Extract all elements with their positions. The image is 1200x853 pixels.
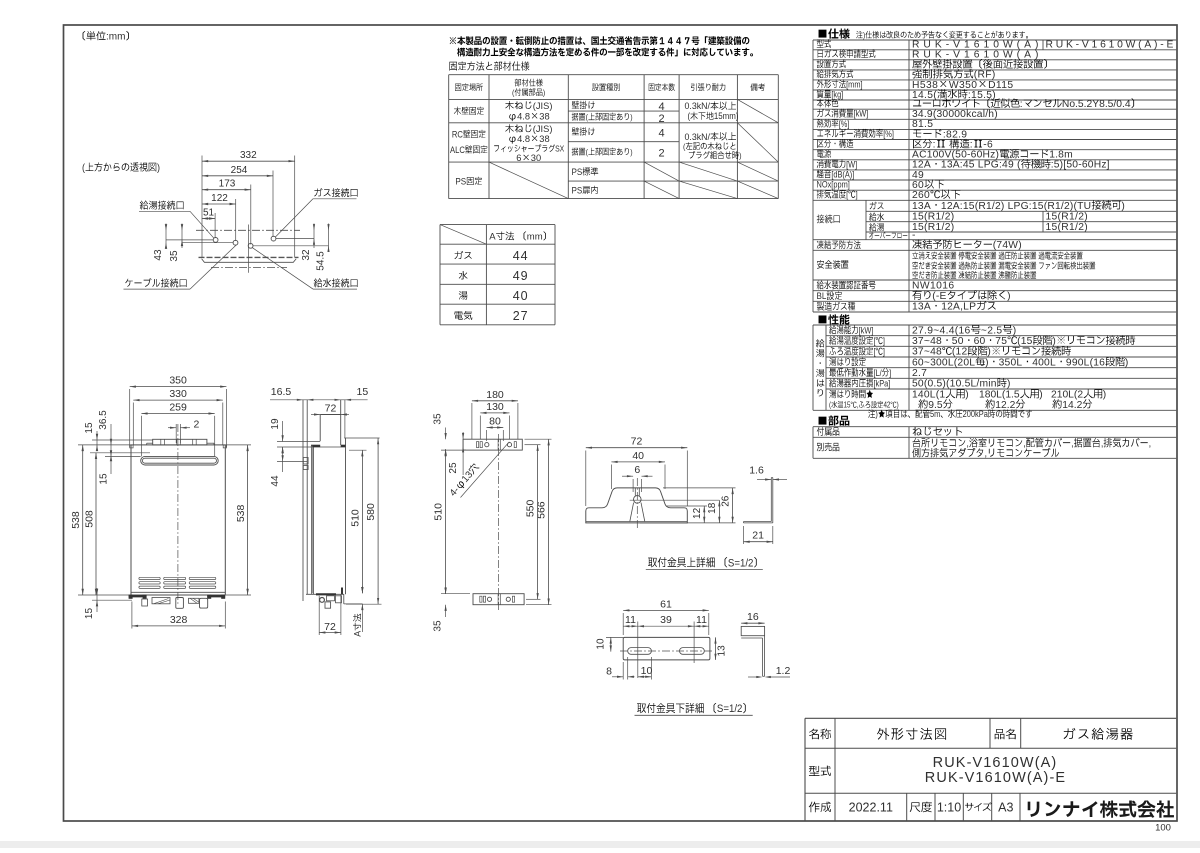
svg-text:200kPa: 200kPa [963, 408, 988, 419]
front dim 259 [141, 413, 214, 415]
svg-text:122: 122 [211, 193, 228, 204]
svg-text:): ) [1121, 201, 1125, 212]
top view label [82, 162, 160, 174]
svg-text:,: , [1023, 438, 1026, 450]
svg-text:[kPa]: [kPa] [873, 378, 890, 389]
svg-text:-: - [912, 230, 916, 241]
svg-text:): ) [157, 162, 160, 174]
svg-text:538: 538 [70, 511, 82, 529]
svg-text:[%]: [%] [839, 118, 850, 129]
svg-text:61: 61 [660, 598, 672, 610]
left reference lines [166, 239, 213, 241]
svg-text:): ) [630, 147, 633, 157]
rear 4-phi13 label [461, 442, 510, 498]
svg-text:(: ( [512, 88, 515, 98]
svg-text:260: 260 [912, 190, 930, 201]
svg-text:): ) [1052, 336, 1056, 347]
top view body bottom edge [199, 256, 299, 258]
svg-text:14.2: 14.2 [1062, 400, 1082, 411]
svg-text:37~48: 37~48 [912, 347, 942, 358]
rear dim 566 [525, 438, 552, 440]
fixing table diagonals [737, 99, 778, 122]
parts heading [819, 416, 850, 426]
title block row1 [809, 729, 831, 740]
svg-text:18: 18 [707, 502, 718, 514]
svg-text:350L: 350L [999, 357, 1023, 368]
upper bracket dim 40 [610, 465, 612, 490]
svg-text:39: 39 [660, 614, 672, 626]
svg-text:,: , [1101, 438, 1104, 450]
spec table heading [819, 28, 850, 38]
fixing table heading [449, 61, 529, 70]
svg-text:40: 40 [513, 289, 529, 303]
top view dim 51 [202, 218, 215, 220]
svg-text:,: , [1071, 438, 1074, 450]
svg-text:12.2: 12.2 [995, 400, 1015, 411]
spec table labels [817, 39, 831, 48]
lower bracket dim 8 [622, 662, 624, 680]
side bottom fittings [320, 598, 325, 603]
svg-text:25: 25 [448, 462, 459, 474]
svg-text:35: 35 [169, 250, 180, 262]
front louvres [139, 577, 160, 579]
front dim 350 [130, 386, 227, 388]
svg-text:580: 580 [365, 503, 377, 521]
upper bracket outline [586, 488, 688, 523]
svg-text:S=1/2: S=1/2 [717, 704, 743, 716]
svg-text:): ) [739, 151, 742, 161]
side exhaust duct [319, 415, 321, 442]
svg-text:13A:45 LPG:49 (: 13A:45 LPG:49 ( [941, 160, 1021, 171]
company name [1028, 801, 1174, 818]
svg-text:44: 44 [270, 475, 281, 487]
svg-text:15: 15 [84, 422, 95, 434]
svg-text:SX: SX [555, 144, 565, 154]
svg-text:No.5.2Y8.5/0.4: No.5.2Y8.5/0.4 [1062, 99, 1131, 110]
side dim A [361, 586, 363, 593]
svg-text:PS: PS [572, 166, 583, 177]
svg-text:15(R1/2): 15(R1/2) [912, 222, 954, 233]
svg-text:259: 259 [169, 402, 187, 414]
svg-text:60~300L(20L: 60~300L(20L [912, 357, 975, 368]
svg-text:35: 35 [433, 620, 444, 632]
svg-text:ALC: ALC [450, 144, 465, 155]
svg-text:510: 510 [349, 509, 361, 527]
dim 35 top view [181, 224, 183, 249]
front dim 330 [133, 399, 223, 401]
cold water port label [314, 278, 358, 287]
svg-text:): ) [1007, 379, 1011, 390]
dim 43 [165, 224, 167, 249]
front bottom fittings [142, 599, 148, 606]
svg-text:(: ( [683, 142, 686, 152]
front exhaust vent slot [141, 456, 219, 465]
upper bracket centerline [636, 478, 638, 530]
svg-text:12A:15(R1/2) LPG:15(R1/2)(TU: 12A:15(R1/2) LPG:15(R1/2)(TU [941, 201, 1091, 212]
svg-text:15: 15 [99, 473, 110, 485]
top view dim 332 [202, 160, 295, 162]
svg-text:8: 8 [606, 666, 612, 678]
front body inner bottom line [131, 591, 225, 593]
svg-text:180: 180 [486, 389, 504, 401]
rear dim 80 [486, 430, 488, 441]
svg-text::mm: :mm [106, 32, 125, 43]
upper bracket dim 72 [585, 451, 587, 507]
svg-text:15: 15 [84, 608, 95, 620]
rear dim 510 [441, 449, 466, 451]
svg-text:27.9~4.4(16: 27.9~4.4(16 [912, 325, 971, 336]
svg-text:2022.11: 2022.11 [849, 801, 893, 815]
svg-text:[kg]: [kg] [831, 88, 843, 99]
upper bracket dim 21 [743, 526, 745, 544]
svg-text:15: 15 [357, 386, 369, 398]
title block bottom row [809, 802, 831, 813]
svg-text:44: 44 [513, 249, 529, 263]
upper bracket hole centerline ext [630, 499, 720, 501]
side dim 44 [277, 460, 308, 462]
svg-text:100: 100 [1155, 823, 1171, 834]
svg-text:10: 10 [595, 638, 606, 650]
lower bracket dim 10 bottom [650, 657, 652, 680]
rear dim 35 top [445, 428, 447, 440]
svg-text:(-E: (-E [932, 291, 946, 302]
svg-text:PS: PS [455, 176, 466, 187]
svg-text:): ) [965, 390, 969, 401]
front dim 508 upper ref [90, 452, 150, 454]
lower bracket dim 13 [715, 637, 717, 660]
dim 54.5 [328, 224, 330, 253]
top view flange [202, 259, 297, 263]
svg-text:37~48: 37~48 [912, 336, 942, 347]
svg-text:81.5: 81.5 [912, 119, 933, 130]
front dim 328 [131, 602, 133, 629]
svg-text:72: 72 [631, 436, 643, 448]
svg-text:332: 332 [240, 150, 257, 161]
svg-text:42: 42 [883, 401, 890, 410]
top view centerline [196, 229, 300, 231]
parts table grid [813, 426, 1176, 428]
svg-text:4.8: 4.8 [517, 111, 530, 121]
front dim 2 [175, 424, 177, 443]
top view dim 173 [202, 189, 251, 191]
svg-text:43: 43 [153, 249, 164, 261]
svg-text:]: ] [883, 346, 885, 357]
front dim 36.5 [110, 424, 112, 455]
side dim 16.5 [297, 399, 303, 401]
svg-text:38: 38 [539, 134, 549, 144]
svg-text:12A,LP: 12A,LP [941, 302, 976, 313]
svg-text:130: 130 [486, 401, 504, 413]
upper bracket dim 1.6 [757, 479, 771, 481]
svg-text:]: ] [883, 335, 885, 346]
upper bracket dim 12 [666, 505, 707, 507]
unit note [83, 31, 129, 42]
svg-text:[kW]: [kW] [859, 324, 874, 335]
upper bracket label [648, 557, 757, 569]
hot water port label [140, 201, 184, 210]
svg-text:,: , [1149, 438, 1152, 450]
svg-text:RC: RC [452, 129, 463, 140]
cable port label [125, 278, 186, 287]
side bold bracket shoulder [311, 445, 320, 447]
front dim 15 left-top [96, 431, 98, 450]
svg-text:[mm]: [mm] [846, 78, 862, 89]
lower bracket dim 61 [622, 613, 624, 635]
front view ext lines top [129, 389, 131, 447]
svg-text:54.5: 54.5 [316, 251, 327, 271]
spec table values [912, 40, 1042, 51]
side dim 72 top [311, 414, 320, 416]
svg-text:19: 19 [270, 418, 281, 430]
svg-text:]: ] [856, 189, 858, 200]
lower bracket slots [628, 648, 652, 655]
upper bracket dim 18 [718, 500, 720, 523]
svg-text:72: 72 [325, 402, 337, 414]
svg-text::5)[50-60Hz]: :5)[50-60Hz] [1051, 160, 1110, 171]
rear dim 35 bottom [445, 587, 447, 594]
svg-text:0.3kN/: 0.3kN/ [685, 132, 711, 142]
svg-text:A: A [489, 232, 496, 243]
svg-text:): ) [985, 357, 989, 368]
svg-text:14.5(: 14.5( [912, 90, 937, 101]
gas port circle [271, 236, 276, 241]
svg-text:32: 32 [301, 249, 312, 261]
svg-text:16.5: 16.5 [271, 386, 292, 398]
svg-text:[L/: [L/ [873, 367, 882, 378]
side dim 580 [346, 603, 382, 605]
svg-text:350: 350 [169, 375, 187, 387]
cable port circle [233, 240, 238, 245]
svg-text:): ) [987, 347, 991, 358]
title block grid [805, 717, 1176, 719]
A-dim table grid [440, 224, 555, 226]
side front ext line [344, 400, 346, 438]
svg-text:1:10: 1:10 [937, 801, 961, 815]
svg-text:2.7: 2.7 [912, 368, 927, 379]
svg-text:2: 2 [659, 148, 665, 160]
rear centerline [498, 434, 500, 610]
svg-text:~2.5: ~2.5 [981, 325, 1003, 336]
svg-text:): ) [875, 408, 878, 419]
svg-text:NOx[ppm]: NOx[ppm] [817, 179, 850, 190]
svg-text:): ) [543, 88, 546, 98]
svg-text:13A: 13A [912, 302, 931, 313]
svg-text::: : [1020, 99, 1023, 110]
svg-text:400L: 400L [1032, 357, 1056, 368]
svg-text:35: 35 [433, 413, 444, 425]
performance note [868, 408, 1032, 419]
lower bracket dim 1.2 [748, 676, 757, 678]
svg-text:13A: 13A [912, 201, 931, 212]
svg-text:6: 6 [634, 464, 640, 476]
svg-text:,: , [966, 438, 969, 450]
svg-text:50: 50 [952, 336, 964, 347]
top view extension lines [201, 156, 203, 258]
svg-text:510: 510 [433, 503, 445, 521]
svg-text:): ) [1013, 325, 1017, 336]
svg-text:): ) [897, 401, 899, 410]
svg-text:12: 12 [692, 507, 703, 519]
svg-text:A: A [353, 631, 363, 637]
svg-text:990L(16: 990L(16 [1066, 357, 1105, 368]
svg-text:80: 80 [489, 416, 501, 428]
svg-text:(JIS): (JIS) [533, 101, 553, 111]
performance table grid [813, 324, 1176, 326]
svg-text:(: ( [688, 111, 691, 122]
svg-text:21: 21 [752, 530, 764, 542]
svg-text:mm: mm [527, 232, 543, 243]
svg-text:BL: BL [817, 291, 827, 302]
side top dim line [270, 399, 368, 401]
side bottom corner step [343, 594, 345, 604]
rear bottom band [473, 594, 524, 605]
front dim 15 bottom-left [92, 599, 132, 601]
svg-text:RUK-V1610W(A)-E: RUK-V1610W(A)-E [1046, 40, 1177, 51]
svg-text:4.8: 4.8 [517, 134, 530, 144]
hot water port circle [213, 238, 218, 243]
lower bracket plate [623, 637, 710, 660]
fixing row RC/ALC wall [452, 129, 486, 140]
svg-text:51: 51 [203, 208, 215, 219]
top view drain centerline [247, 225, 249, 273]
svg-text:16: 16 [747, 611, 759, 623]
upper bracket dim 6 [632, 479, 634, 492]
fixing table grid [449, 74, 779, 76]
rear dim 550 [525, 444, 541, 446]
svg-text:72: 72 [324, 621, 336, 633]
lower bracket centerlines [620, 650, 712, 652]
svg-text:6: 6 [516, 153, 521, 163]
top view dim 122 [202, 203, 236, 205]
performance values [912, 325, 1016, 336]
gas port label [314, 188, 357, 197]
side dim 72 bottom [318, 596, 320, 635]
svg-text:2: 2 [659, 113, 665, 125]
fixing table header texts [455, 83, 483, 91]
dim 32 [313, 224, 315, 249]
title block model row [809, 766, 831, 776]
rear dim 180 [471, 403, 473, 439]
svg-text:(74W): (74W) [993, 240, 1022, 251]
svg-text:30: 30 [531, 153, 541, 163]
upper bracket dim 26 [663, 487, 736, 489]
svg-text:]: ] [889, 367, 891, 378]
svg-text:13: 13 [716, 645, 727, 657]
svg-text:): ) [1039, 390, 1042, 401]
svg-text:,: , [857, 401, 859, 410]
side wall lines [302, 400, 304, 601]
svg-text:): ) [1125, 357, 1129, 368]
front dim 538 left [78, 444, 131, 446]
lower bracket dims 11/39/11 [623, 625, 709, 627]
svg-text:(12: (12 [952, 347, 968, 358]
svg-text:15(R1/2): 15(R1/2) [1046, 222, 1088, 233]
svg-text:38: 38 [539, 111, 549, 121]
front dim 538 right [226, 444, 251, 446]
svg-text:15mm): 15mm) [714, 111, 739, 122]
svg-text:(: ( [586, 147, 589, 157]
svg-text:60: 60 [974, 336, 986, 347]
front view body [131, 445, 225, 595]
svg-text:36.5: 36.5 [98, 410, 109, 430]
svg-text:RUK-V1610W(A): RUK-V1610W(A) [912, 50, 1042, 61]
lower bracket label [637, 703, 746, 715]
front top cap [153, 439, 207, 445]
svg-text:): ) [1103, 390, 1106, 401]
svg-text:11: 11 [625, 614, 636, 626]
side body [311, 447, 313, 594]
svg-text:566: 566 [536, 501, 548, 519]
side dim 510 [349, 449, 367, 451]
front dim 15 vent [110, 453, 112, 474]
svg-text:173: 173 [219, 179, 236, 190]
svg-text:330: 330 [169, 388, 187, 400]
side 580 top ext [344, 437, 379, 439]
front top bracket stubs [130, 445, 133, 448]
safety devices cell [912, 251, 1082, 261]
svg-text:2: 2 [194, 418, 200, 430]
svg-text:4: 4 [659, 128, 665, 140]
side bottom bold pieces [316, 593, 336, 595]
svg-text:11: 11 [696, 614, 707, 626]
svg-text:RUK-V1610W(A): RUK-V1610W(A) [933, 755, 1058, 771]
svg-text:4: 4 [659, 101, 665, 113]
svg-text:): ) [1007, 291, 1011, 302]
upper bracket side profile [770, 478, 772, 522]
warning note [450, 36, 750, 45]
performance heading [819, 314, 850, 324]
svg-text:[%]: [%] [883, 128, 894, 139]
svg-text:): ) [630, 112, 633, 122]
svg-text:,: , [985, 448, 988, 460]
side top mounting clip [303, 458, 308, 465]
svg-text:(: ( [586, 112, 589, 122]
front dim 508 [95, 453, 97, 595]
lower bracket side profile [741, 626, 764, 635]
svg-text:S=1/2: S=1/2 [728, 558, 754, 570]
svg-text:27: 27 [513, 309, 529, 323]
side dim 19 [277, 441, 320, 443]
rear dim 25 [462, 432, 464, 475]
right reference lines [276, 238, 314, 240]
svg-text:1.2: 1.2 [776, 665, 791, 677]
svg-text:1.6: 1.6 [749, 465, 764, 477]
svg-text:PS: PS [572, 185, 583, 196]
front centerline [177, 424, 179, 604]
A-dim table texts [489, 232, 546, 243]
side dim 15 top [335, 399, 341, 401]
svg-text:A3: A3 [998, 801, 1013, 815]
spec table grid [813, 39, 1176, 41]
svg-text:5m: 5m [930, 408, 940, 419]
rear top band [463, 439, 522, 450]
svg-text:RUK-V1610W(A)-E: RUK-V1610W(A)-E [925, 770, 1066, 786]
svg-text:15: 15 [844, 401, 851, 410]
svg-text:508: 508 [84, 510, 96, 528]
svg-text:40: 40 [632, 450, 644, 462]
svg-text:[kW]: [kW] [854, 108, 869, 119]
lower bracket dim 16 [741, 622, 764, 624]
cold water port circle [248, 243, 253, 248]
svg-text:49: 49 [513, 269, 529, 283]
svg-text:10: 10 [641, 665, 653, 677]
svg-text:328: 328 [170, 614, 188, 626]
svg-text:(15: (15 [1017, 336, 1033, 347]
svg-text:26: 26 [720, 495, 731, 507]
upper bracket keyhole [634, 488, 636, 496]
fixing row wood wall [454, 107, 484, 115]
svg-text:538: 538 [235, 504, 247, 522]
